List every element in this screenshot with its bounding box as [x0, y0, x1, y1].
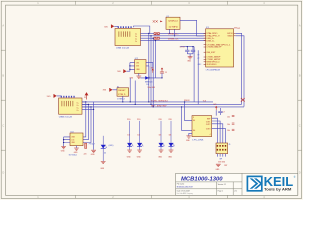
svg-text:USB_D-: USB_D- — [168, 38, 179, 40]
svg-text:SOT23-6: SOT23-6 — [69, 154, 78, 156]
wire IC4 to bus — [113, 90, 123, 102]
wire USB data bus row 2 — [141, 35, 206, 37]
wire X2 pin riser 2 — [82, 103, 88, 105]
svg-text:Tools by ARM: Tools by ARM — [264, 187, 291, 191]
svg-text:USB_D+: USB_D+ — [168, 34, 180, 36]
svg-text:10k: 10k — [227, 124, 230, 126]
ground LED D1 — [127, 147, 132, 159]
capacitor C2 — [180, 46, 190, 53]
wire drop 1 — [148, 33, 150, 102]
svg-text:MCB1000-1300: MCB1000-1300 — [181, 177, 223, 183]
svg-text:3V3: 3V3 — [151, 67, 154, 69]
svg-text:D+: D+ — [77, 107, 79, 109]
ground LED D2 — [137, 147, 142, 159]
power flag VBUS X2 — [84, 92, 88, 99]
op IC1 LPC1343 — [204, 27, 237, 72]
net tie mark — [241, 98, 245, 102]
capacitor C7 — [216, 108, 225, 116]
svg-text:D5: D5 — [159, 134, 161, 136]
LED D1 — [127, 121, 133, 147]
resistor pair RP1 — [227, 115, 234, 118]
power flag IC4 — [103, 88, 113, 92]
svg-text:A: A — [299, 24, 301, 28]
wire caps to ground — [187, 54, 193, 57]
power flag X2 — [47, 94, 57, 98]
crystal Q1 — [166, 16, 180, 30]
title block — [176, 173, 298, 195]
svg-text:PIO0_7: PIO0_7 — [89, 143, 95, 145]
svg-text:B: B — [299, 74, 301, 78]
svg-text:RESET/PIO0_0: RESET/PIO0_0 — [206, 62, 219, 64]
LED D2 — [137, 121, 143, 147]
svg-text:D6: D6 — [169, 134, 171, 136]
USB connector X2 — [59, 96, 82, 119]
wire lower bus row 1 — [82, 101, 213, 103]
ground IC2 — [129, 73, 141, 79]
svg-text:LPC-LINK: LPC-LINK — [192, 139, 204, 141]
svg-text:C5: C5 — [165, 72, 167, 74]
junction drop 1 — [148, 33, 149, 34]
svg-text:C7: C7 — [223, 111, 225, 113]
svg-text:USB_D-: USB_D- — [206, 40, 215, 42]
wire drop 4 — [154, 41, 156, 78]
wire cap feed — [180, 46, 194, 48]
net label osc — [197, 54, 202, 65]
wire xtal riser B — [197, 50, 199, 104]
ground IC3 center — [74, 146, 79, 154]
svg-text:D+: D+ — [135, 39, 137, 41]
svg-text:D: D — [299, 171, 301, 175]
wire X1 VCC to pin — [114, 25, 118, 27]
svg-text:C: C — [299, 124, 301, 128]
svg-text:XT: XT — [197, 58, 199, 60]
svg-text:MBR0520: MBR0520 — [145, 81, 153, 83]
svg-text:10k: 10k — [227, 130, 230, 132]
svg-text:VDD/VDDIO: VDD/VDDIO — [206, 64, 217, 66]
wire drop 2 — [150, 36, 152, 105]
resistor R1 — [127, 119, 131, 121]
svg-text:D+: D+ — [135, 33, 137, 35]
resistor R2 — [137, 119, 141, 121]
svg-text:D+: D+ — [135, 41, 137, 43]
wire riser down 4 — [93, 109, 95, 149]
wire IC2 output — [146, 63, 153, 78]
wire X2 pin riser 1 — [82, 101, 86, 103]
power flag C5 — [161, 68, 163, 72]
svg-text:D: D — [2, 171, 4, 175]
wire X2 pin riser 4 — [82, 102, 94, 110]
wire UART left pin 1 — [185, 102, 192, 121]
wire D4 to ground — [102, 148, 104, 161]
supervisor IC4 — [117, 86, 129, 100]
ground IC5 — [186, 133, 192, 142]
wire UART left pin 2 — [182, 107, 192, 130]
wire crystal pin 1 down — [169, 29, 171, 33]
svg-text:Version 1.1: Version 1.1 — [218, 183, 227, 186]
ground LED D5 — [158, 147, 163, 159]
power flag 3V3 out — [151, 67, 154, 72]
power flag IC2 input — [117, 69, 126, 73]
wire riser down 3 — [83, 107, 91, 143]
svg-text:D1: D1 — [127, 134, 129, 136]
capacitor C3 — [191, 47, 195, 54]
svg-text:C2 C3: C2 C3 — [180, 46, 185, 48]
wire crystal pin 2 down — [174, 29, 176, 36]
wire X1 VBUS — [134, 26, 150, 33]
junction drop 4 — [155, 40, 156, 41]
svg-text:DTSM-3: DTSM-3 — [117, 98, 125, 100]
svg-text:4: 4 — [210, 134, 211, 136]
wire USB data bus row 1 — [141, 32, 206, 34]
wire SWCLK riser — [236, 33, 242, 104]
svg-text:OUT3: OUT3 — [206, 129, 211, 131]
svg-text:3V3 GND: 3V3 GND — [218, 162, 226, 164]
svg-text:12 MHz: 12 MHz — [168, 27, 178, 29]
svg-text:SWCLK: SWCLK — [227, 33, 233, 35]
ground J1 — [216, 164, 221, 171]
diode D3 — [140, 76, 162, 86]
svg-text:D+: D+ — [77, 110, 79, 112]
wire xtal riser A — [193, 47, 195, 102]
wire USB data bus row 4 — [141, 40, 206, 42]
svg-text:D4: D4 — [104, 152, 106, 154]
wire IC5 to J1 pin 1 — [212, 118, 218, 143]
wire IC5 to J1 pin 2 — [212, 121, 221, 143]
wire lower bus row 2 — [82, 103, 242, 105]
protection IC3 — [69, 131, 83, 156]
wire drop 3 — [152, 38, 154, 107]
ground caps — [187, 57, 192, 63]
svg-text:RESET: RESET — [118, 90, 126, 92]
resistor R4 — [168, 119, 172, 121]
no-connect marks on Q1 — [153, 20, 163, 22]
ground D4 — [100, 162, 105, 170]
wire aux vertical — [134, 81, 136, 105]
svg-text:D+: D+ — [77, 105, 79, 107]
wire J1 bottom pins — [217, 154, 225, 157]
svg-text:3V3: 3V3 — [237, 28, 240, 30]
ground IC3 left — [61, 147, 66, 153]
wire riser down 1 — [83, 102, 86, 137]
ground LED D6 — [168, 147, 173, 159]
svg-text:D3: D3 — [146, 84, 148, 86]
wire SWDIO riser — [236, 36, 244, 107]
junction caps — [187, 46, 188, 47]
wire IC5 to J1 pin 4 — [212, 129, 226, 143]
resistor R3 — [158, 119, 162, 121]
wire IC2 left pins — [127, 63, 135, 72]
svg-text:3V3: 3V3 — [136, 66, 139, 68]
svg-text:D+: D+ — [77, 102, 79, 104]
LED D6 — [169, 121, 175, 147]
svg-text:(LED): (LED) — [109, 145, 114, 147]
junction diode out — [148, 77, 149, 78]
wire X2 pin riser 3 — [82, 106, 91, 108]
svg-text:Date: 19.05.2009: Date: 19.05.2009 — [177, 190, 190, 193]
LED D5 — [159, 121, 165, 147]
ground riser 4 — [91, 150, 96, 156]
svg-text:C: C — [2, 124, 4, 128]
junction reset net — [130, 101, 131, 102]
wire USB data bus row 3 — [141, 37, 206, 39]
power flag IC5 — [213, 104, 217, 110]
svg-text:100n GND: 100n GND — [148, 87, 156, 89]
svg-text:3V3: 3V3 — [213, 104, 216, 106]
svg-text:LPC1343FBD48: LPC1343FBD48 — [206, 70, 221, 72]
svg-text:Page 1: Page 1 — [218, 191, 223, 193]
ferrite bead L1 — [154, 33, 159, 35]
svg-text:REF: REF — [207, 118, 210, 120]
USB connector X1 — [115, 26, 141, 49]
wire crystal to IC1 XTAL — [180, 20, 204, 36]
svg-text:10k: 10k — [227, 116, 230, 118]
svg-text:USB mini-B: USB mini-B — [59, 117, 73, 119]
svg-text:QSMU-4: QSMU-4 — [168, 21, 178, 23]
svg-text:USB mini-B: USB mini-B — [116, 47, 130, 49]
svg-text:XT: XT — [197, 54, 199, 56]
junction drop 2 — [150, 35, 151, 36]
wire IC3 left pins — [64, 137, 70, 147]
wire IC5 to J1 pin 3 — [212, 124, 223, 143]
svg-text:LC6: LC6 — [71, 139, 74, 141]
wire reset net vertical — [129, 78, 131, 102]
svg-text:RST: RST — [224, 165, 227, 167]
svg-text:MCB1000-1300.SCH: MCB1000-1300.SCH — [177, 187, 194, 189]
svg-text:USB_D+: USB_D+ — [206, 38, 214, 40]
LED D4 — [101, 136, 114, 149]
resistor pair RP2 — [227, 123, 234, 126]
KEIL logo — [247, 175, 295, 192]
junction aux — [135, 104, 136, 105]
svg-text:SWDIO: SWDIO — [228, 36, 234, 38]
power flag X1 — [104, 25, 114, 29]
wire riser down 2 — [83, 104, 88, 139]
svg-text:File name: File name — [177, 183, 184, 185]
regulator IC2 — [135, 58, 146, 73]
wire lower bus row 3 — [82, 106, 244, 108]
svg-text:D+: D+ — [135, 36, 137, 38]
svg-text:USB_SOFT: USB_SOFT — [206, 52, 215, 54]
junction drop 3 — [153, 38, 154, 39]
interface IC5 — [192, 116, 212, 142]
svg-text:OUT1: OUT1 — [206, 121, 211, 123]
svg-text:B: B — [2, 74, 4, 78]
junction crystal pin 1 — [169, 33, 170, 34]
svg-text:USB: USB — [71, 137, 74, 139]
svg-text:A: A — [2, 24, 4, 28]
svg-text:®: ® — [294, 176, 296, 179]
svg-text:220: 220 — [84, 154, 87, 156]
header J1 — [216, 143, 231, 154]
capacitor C5 — [160, 72, 167, 78]
resistor pair RP3 — [227, 129, 234, 132]
svg-text:D2: D2 — [137, 134, 139, 136]
ferrite bead L2 — [154, 37, 159, 39]
wire X2 VCC to pin — [57, 95, 62, 97]
resistor R5 — [84, 143, 87, 155]
svg-text:PB 1: PB 1 — [118, 94, 126, 96]
svg-text:V5: V5 — [84, 97, 86, 99]
svg-text:of 1: of 1 — [234, 191, 237, 193]
svg-text:OUT2: OUT2 — [206, 124, 211, 126]
junction crystal pin 2 — [174, 35, 175, 36]
